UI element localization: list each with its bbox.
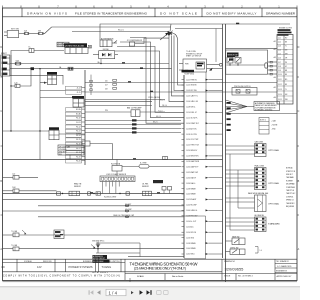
switch blade diagonal	[45, 27, 52, 34]
nested feeder 4	[115, 51, 184, 107]
svg-text:REQUIRED: REQUIRED	[286, 206, 295, 208]
optional stack connector C4	[255, 214, 267, 231]
fuse table B2	[57, 42, 69, 47]
spare labels right of bar	[227, 55, 235, 61]
svg-text:12V/B+ 5A RED: 12V/B+ 5A RED	[148, 96, 161, 99]
svg-text:J1-08 SW B+: J1-08 SW B+	[186, 107, 196, 109]
lower J2 connector	[49, 127, 85, 139]
svg-text:STRICTLY IN: STRICTLY IN	[286, 171, 295, 173]
svg-text:J1-22 THROTTLE: J1-22 THROTTLE	[186, 145, 199, 147]
svg-text:J2-10: J2-10	[278, 74, 282, 76]
svg-text:BK: BK	[285, 84, 287, 86]
fuse link FL2 on y68.7	[68, 67, 73, 70]
toolbar nav controls	[89, 289, 169, 295]
svg-text:FU-10: FU-10	[76, 118, 81, 120]
svg-text:J2-14: J2-14	[77, 88, 81, 90]
sensor pin drops	[103, 182, 120, 194]
wire key switch to fuse F1	[19, 33, 25, 35]
ECM top label	[186, 51, 202, 57]
svg-text:BUSINESS UNIT: BUSINESS UNIT	[83, 261, 96, 263]
svg-text:IN SHEET: IN SHEET	[286, 180, 293, 182]
header band	[3, 8, 298, 17]
svg-text:1 / 4: 1 / 4	[109, 290, 118, 295]
svg-text:SPEED CO: SPEED CO	[286, 200, 295, 202]
svg-text:J2-4: J2-4	[278, 50, 281, 52]
svg-text:1.0: 1.0	[260, 250, 262, 252]
junction x40	[39, 68, 40, 69]
svg-text:NO. of ITEMS 4: NO. of ITEMS 4	[238, 276, 254, 278]
svg-text:THROTTLE: THROTTLE	[286, 190, 294, 192]
svg-text:C: C	[298, 110, 300, 113]
svg-text:OPTIONAL: OPTIONAL	[268, 203, 280, 206]
svg-text:J07: J07	[105, 84, 108, 86]
svg-text:J1-26 SENS RTN: J1-26 SENS RTN	[186, 156, 199, 158]
cab feed fuse capsule 1	[3, 230, 55, 237]
low coolant sensor connector	[100, 173, 135, 181]
svg-text:J1-54 SPLICE: J1-54 SPLICE	[186, 232, 196, 234]
4P CONN box	[58, 145, 84, 160]
svg-text:J1-50 B+ OUT: J1-50 B+ OUT	[186, 221, 196, 223]
junction dot	[10, 130, 11, 131]
svg-text:W-DBC/5-GRNT: W-DBC/5-GRNT	[104, 197, 116, 199]
fuse X marks	[88, 45, 91, 48]
starter motor M1	[1, 52, 11, 76]
svg-text:J1-12 GLOW PL: J1-12 GLOW PL	[186, 117, 198, 119]
optional stack connector C3	[248, 192, 268, 211]
side zone letters	[0, 46, 299, 251]
svg-text:COMPLY WITH TOOLS/DVL COMPONEN: COMPLY WITH TOOLS/DVL COMPONENT TO COMPL…	[3, 276, 120, 278]
fuse F1	[24, 29, 29, 34]
lamp circle on wire	[212, 29, 223, 67]
bus y216.8	[38, 214, 184, 218]
fuse panel row stubs	[82, 88, 86, 161]
svg-text:OR-1.0: OR-1.0	[162, 105, 167, 107]
bottom right switch comp 2	[226, 247, 246, 254]
svg-text:NOT AT ISSUE 3: NOT AT ISSUE 3	[92, 271, 109, 274]
top zone ruler ticks	[3, 6, 298, 9]
bulkhead bar top label	[182, 70, 195, 73]
inline sensor capsule a	[57, 192, 61, 195]
ground splice	[91, 240, 105, 253]
svg-text:DRAWN ON VISYS: DRAWN ON VISYS	[27, 11, 67, 15]
svg-text:STANDARD: STANDARD	[268, 223, 280, 226]
svg-text:USE IN IT: USE IN IT	[286, 174, 293, 176]
svg-text:OPTIONAL: OPTIONAL	[268, 182, 280, 185]
bus y211	[3, 209, 185, 212]
pressure switch group label	[227, 53, 239, 57]
svg-text:J2-5: J2-5	[278, 54, 281, 56]
wire starter y68.7	[10, 68, 172, 70]
svg-text:J2-11: J2-11	[278, 79, 282, 81]
title block	[3, 259, 298, 280]
svg-text:SENSOR: SENSOR	[142, 186, 150, 188]
svg-text:J2-6: J2-6	[278, 58, 281, 60]
svg-text:J2-12: J2-12	[278, 84, 282, 86]
diode drop to bus	[98, 59, 102, 64]
bus y82.5 panel to right connector	[85, 82, 277, 84]
svg-text:J1-10 FUEL LP: J1-10 FUEL LP	[186, 112, 197, 114]
ECM drop wire x206	[205, 72, 207, 160]
sensor group enclosure box	[226, 50, 268, 74]
svg-text:1-40: 1-40	[14, 82, 17, 84]
svg-text:320/09655: 320/09655	[225, 266, 245, 271]
svg-text:W-DOW KA: W-DOW KA	[111, 162, 121, 165]
regulator label	[64, 43, 88, 53]
svg-text:SCALE: SCALE	[137, 275, 144, 278]
note2 mini table	[259, 118, 278, 135]
svg-text:J2-13: J2-13	[278, 89, 282, 91]
splice wire y253	[96, 252, 140, 254]
wire y120.5	[85, 119, 181, 121]
wire y132.5	[85, 131, 181, 133]
svg-text:OPTIONAL: OPTIONAL	[268, 149, 280, 152]
svg-text:J1-18 OIL PRS: J1-18 OIL PRS	[186, 134, 197, 136]
nested feeder 1	[130, 38, 184, 124]
tree drop 2	[172, 36, 185, 96]
bulkhead pin rows	[186, 79, 200, 255]
bus y105	[85, 105, 152, 107]
optional stack connector C2	[255, 165, 267, 190]
svg-text:DO NOT MODIFY MANUALLY: DO NOT MODIFY MANUALLY	[207, 11, 257, 15]
svg-text:J2-15: J2-15	[77, 92, 81, 94]
label on y24	[236, 23, 239, 25]
fuse panel row labels	[76, 88, 81, 163]
inline connector J3 stubs	[105, 79, 116, 90]
svg-text:DRAWING NO: DRAWING NO	[224, 260, 236, 263]
nested feeder 2	[120, 42, 184, 118]
relay K1 BAT	[85, 107, 165, 117]
right fan converge	[226, 100, 255, 113]
svg-text:WH: WH	[285, 99, 288, 101]
compressor J2	[127, 38, 169, 46]
svg-text:ENGINEER W: ENGINEER W	[276, 271, 287, 273]
side border zone ticks	[1, 77, 300, 215]
svg-text:J1-20 CLNT TMP: J1-20 CLNT TMP	[186, 139, 198, 141]
pwr gnd junction box	[232, 86, 257, 95]
svg-text:PU: PU	[285, 62, 287, 64]
splice wire y243	[96, 243, 140, 257]
svg-text:J1-24 SENS 5V: J1-24 SENS 5V	[186, 150, 198, 152]
svg-text:FU-19: FU-19	[76, 156, 81, 158]
junction dots on y193.5	[62, 193, 121, 194]
machine harness pair bar left	[222, 24, 224, 258]
horn comp	[76, 134, 113, 160]
svg-text:J1-62 SHLD: J1-62 SHLD	[186, 254, 196, 256]
svg-text:SENSOR: SENSOR	[74, 186, 82, 188]
svg-text:C: C	[0, 110, 2, 113]
bus y205.8	[38, 203, 184, 207]
inline connector on main bus	[163, 157, 168, 160]
svg-text:J1-01 PWR RD: J1-01 PWR RD	[186, 79, 198, 81]
wire y124.5	[85, 123, 181, 125]
svg-text:B+: B+	[29, 47, 31, 49]
tree drop 3	[174, 36, 184, 91]
svg-text:CASE GL PRESSURE CAP: CASE GL PRESSURE CAP	[113, 214, 135, 217]
svg-text:REFVOICE: REFVOICE	[43, 261, 53, 263]
inline sensor capsule d	[96, 192, 101, 195]
pressure switch SW2	[235, 58, 241, 66]
svg-text:J.C.DAWFORD: J.C.DAWFORD	[277, 265, 292, 268]
svg-text:J1-03 KEY WH: J1-03 KEY WH	[186, 90, 198, 92]
svg-text:J2-2: J2-2	[278, 42, 281, 44]
svg-text:EN-ANT: EN-ANT	[125, 203, 131, 206]
svg-text:FU-20: FU-20	[76, 161, 81, 163]
bulkhead connector J1 bar	[183, 75, 185, 258]
svg-text:12V REG PACK ALLMA: 12V REG PACK ALLMA	[65, 44, 85, 47]
svg-text:WH: WH	[285, 54, 288, 56]
starter ground drop x11	[10, 76, 12, 131]
sensor bus y193.5	[3, 193, 185, 195]
inline sensor capsule b	[69, 191, 80, 196]
alternator note label box	[254, 102, 280, 112]
feed capsule y177	[3, 174, 39, 180]
svg-text:COMPONEN: COMPONEN	[286, 187, 295, 189]
svg-text:FU-15: FU-15	[76, 139, 81, 141]
svg-text:CONTROL: CONTROL	[286, 196, 293, 198]
B+ cable inline connector	[11, 47, 64, 55]
sensor wires into right connector	[268, 61, 278, 75]
bottom right switch comp 1	[226, 235, 246, 244]
svg-text:B+ WIRE: B+ WIRE	[140, 163, 147, 165]
svg-text:FILE STORED IN TEAMCENTER ENGI: FILE STORED IN TEAMCENTER ENGINEERING	[75, 11, 148, 15]
svg-text:12V FEED: 12V FEED	[59, 149, 67, 151]
alternator excite label	[93, 255, 110, 263]
tree drop 1	[169, 36, 184, 102]
svg-text:J2 COMPRESSOR: J2 COMPRESSOR	[127, 40, 143, 42]
bus y31.5	[72, 31, 168, 33]
svg-text:VOLTAGE: VOLTAGE	[24, 260, 33, 263]
svg-text:ISSUE: ISSUE	[224, 276, 231, 278]
right connector pin labels column	[274, 40, 277, 99]
svg-text:APPROVED BY: APPROVED BY	[277, 275, 293, 278]
inline connector J4 column	[90, 75, 93, 95]
svg-text:THROTTLE 2: THROTTLE 2	[286, 193, 295, 195]
wire number blocks right of pair	[227, 102, 231, 131]
branch wire y86 with fuse	[10, 68, 31, 87]
wire starter y75.3	[10, 75, 63, 84]
svg-text:GN: GN	[285, 94, 287, 96]
svg-text:GROUND SPLC: GROUND SPLC	[92, 240, 105, 242]
svg-text:J2-1: J2-1	[278, 38, 281, 40]
alternator sense comp	[72, 96, 84, 107]
main bus y159.5	[3, 159, 223, 161]
bus label specks	[60, 62, 160, 235]
svg-text:THE MICRO: THE MICRO	[286, 203, 295, 205]
svg-text:GN: GN	[285, 50, 287, 52]
diode pack D1	[93, 49, 118, 59]
note text block	[286, 167, 295, 208]
svg-text:TO-REF 09654: TO-REF 09654	[184, 73, 194, 75]
svg-text:D: D	[298, 46, 300, 49]
panel feed y90.3	[40, 89, 66, 91]
svg-text:FU-11: FU-11	[76, 122, 80, 124]
svg-text:B1 40A: B1 40A	[58, 45, 64, 48]
ground wire y131	[3, 130, 50, 132]
optional stack connector C1	[255, 141, 267, 157]
svg-text:PW: PW	[105, 110, 108, 112]
separator line y113.5	[226, 113, 297, 115]
ignition bus wire y27	[52, 26, 171, 28]
svg-text:YL-1.0: YL-1.0	[158, 111, 163, 113]
svg-text:/19: /19	[1, 265, 5, 269]
B+ wire capsule	[122, 163, 181, 169]
top bus y24	[100, 24, 290, 40]
right connector label block	[278, 28, 292, 36]
inline sensor capsule c	[88, 192, 91, 195]
svg-text:J1-44 HD-GNP: J1-44 HD-GNP	[186, 205, 197, 207]
svg-text:J1-56 GND: J1-56 GND	[186, 237, 195, 239]
svg-text:TEC DRAWN BY: TEC DRAWN BY	[276, 260, 290, 263]
svg-text:BU: BU	[285, 74, 287, 76]
aux relay box bottom	[54, 230, 184, 239]
svg-text:RD-2.5: RD-2.5	[160, 100, 165, 102]
sensor internal bus y65	[227, 63, 268, 68]
wire y48.3 to table	[226, 47, 278, 49]
wire starter B+ y64	[10, 63, 169, 65]
header text	[27, 11, 296, 15]
feed capsule y190.7	[3, 187, 57, 192]
svg-text:BK-2.5: BK-2.5	[153, 122, 158, 124]
svg-text:FU-18: FU-18	[76, 152, 81, 154]
svg-text:TO POWER DISTRIBUTION: TO POWER DISTRIBUTION	[255, 107, 276, 109]
svg-text:BAT 12 PWL AMP: BAT 12 PWL AMP	[127, 107, 142, 110]
right connector table J2	[277, 35, 293, 105]
svg-text:T4 ENG: T4 ENG	[102, 265, 112, 269]
svg-text:D: D	[0, 46, 2, 49]
wire y128.5	[85, 127, 181, 129]
throttle pos comp	[153, 180, 172, 194]
cab feed fuse capsule 2	[3, 244, 185, 251]
vertical feeder x40	[39, 69, 41, 160]
svg-text:Not to Scale: Not to Scale	[172, 275, 184, 278]
nested feeder 3	[117, 47, 184, 113]
svg-text:YL: YL	[285, 46, 287, 48]
svg-text:POWER SYSTEMS: POWER SYSTEMS	[69, 265, 93, 269]
svg-text:(21-MACHINE SIDE ONLY (T4 ONLY: (21-MACHINE SIDE ONLY (T4 ONLY)	[134, 266, 186, 270]
fuse panel bus bar	[84, 70, 86, 165]
svg-text:BUS USED UNIT/TLE: BUS USED UNIT/TLE	[103, 261, 120, 263]
svg-text:J2-7: J2-7	[278, 62, 281, 64]
inline sensor capsule e	[126, 192, 130, 195]
bracket mark	[255, 247, 262, 254]
wire F2 to switch blade	[43, 33, 45, 35]
svg-text:FU-12: FU-12	[76, 126, 81, 128]
key switch S1	[4, 29, 19, 38]
svg-text:PWR IN-GND SWITCH: PWR IN-GND SWITCH	[234, 86, 251, 88]
svg-text:ENGINE ECU GROUP: ENGINE ECU GROUP	[186, 53, 202, 55]
svg-text:GY: GY	[285, 66, 287, 68]
svg-text:YL: YL	[285, 89, 287, 91]
fuse link FL1 on y68.7	[31, 67, 35, 70]
ECM U1	[179, 59, 212, 75]
svg-text:DRAWING NUMBER: DRAWING NUMBER	[266, 11, 296, 15]
fuse F2 IGN	[38, 30, 43, 34]
tree drop 4	[178, 40, 185, 85]
window motor comp	[111, 160, 122, 177]
svg-text:BN: BN	[285, 70, 287, 72]
wire F1 to F2	[28, 33, 39, 35]
panel feed y97.6	[40, 97, 73, 99]
svg-text:J2-8: J2-8	[278, 66, 281, 68]
svg-text:SENSOR GP: SENSOR GP	[228, 55, 239, 57]
gnd bus y199	[3, 198, 185, 200]
svg-text:J06: J06	[105, 80, 108, 82]
svg-text:J08: J08	[105, 88, 108, 90]
svg-text:FU-17: FU-17	[76, 148, 81, 150]
svg-text:GN-1.0: GN-1.0	[156, 116, 161, 118]
svg-text:J2-15: J2-15	[278, 99, 282, 101]
viewer toolbar	[0, 287, 300, 300]
fuse F3 on y64	[15, 59, 20, 65]
svg-text:FU-13: FU-13	[76, 131, 81, 133]
wire pair B+ y99.5	[85, 96, 165, 101]
junction dot	[39, 130, 40, 131]
svg-text:RD-2.5: RD-2.5	[118, 30, 124, 32]
svg-text:EXCITE CIRCUIT: EXCITE CIRCUIT	[93, 258, 105, 260]
feeder wire labels	[153, 100, 167, 124]
splice bus to bar	[128, 256, 184, 258]
bottom border tick	[129, 278, 131, 282]
inline sensor capsule f	[143, 191, 152, 196]
relay J2 box	[40, 72, 57, 85]
bus y28.5 from tree to bulkhead pair	[175, 28, 223, 30]
sheet title text	[130, 261, 198, 278]
bulkhead arrowheads	[206, 79, 209, 255]
svg-text:12V: 12V	[37, 265, 42, 269]
fuse panel row boxes	[66, 86, 82, 163]
svg-text:TO 4E CONN: TO 4E CONN	[186, 51, 197, 53]
svg-text:J2-3: J2-3	[278, 46, 281, 48]
bus y92	[85, 91, 277, 93]
lower connector body outline	[184, 216, 206, 259]
svg-text:J2-14: J2-14	[278, 94, 282, 96]
bulkhead row stubs and arrows	[182, 80, 223, 254]
svg-text:NOTE 2: NOTE 2	[260, 120, 266, 122]
svg-text:OIL PRS: OIL PRS	[142, 184, 148, 186]
zone numbers	[20, 5, 280, 9]
harness fan tree knot	[160, 24, 178, 40]
machine harness pair bar right	[225, 24, 227, 282]
stack feeder wires	[226, 146, 255, 230]
svg-text:GND RTN: GND RTN	[59, 152, 67, 154]
arrow terminal	[209, 68, 223, 71]
svg-text:J1-02 GND BK: J1-02 GND BK	[186, 85, 197, 87]
svg-text:J2-9: J2-9	[278, 70, 281, 72]
alternator G1	[100, 38, 117, 47]
sensor labels left	[74, 183, 150, 188]
pressure switch SW1	[227, 58, 233, 66]
svg-text:BK: BK	[285, 42, 287, 44]
svg-text:+ NORM: + NORM	[271, 125, 278, 127]
